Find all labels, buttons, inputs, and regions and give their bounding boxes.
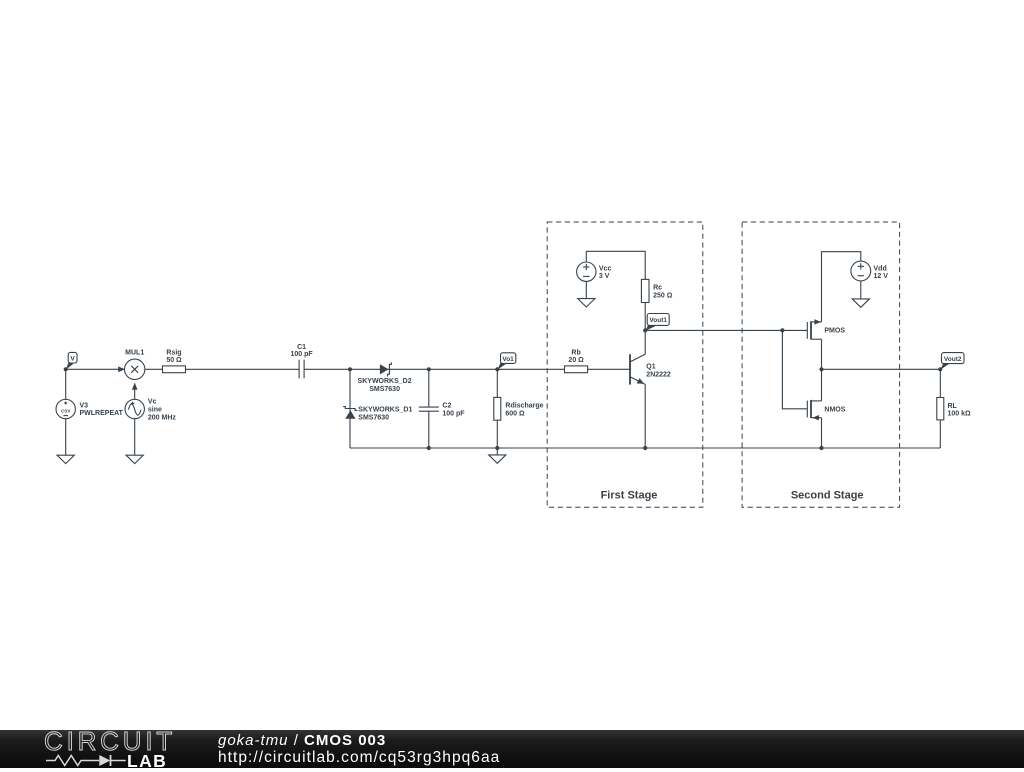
svg-text:3 V: 3 V <box>599 273 610 280</box>
junction C2 bottom rail <box>427 446 431 450</box>
svg-text:PWLREPEAT: PWLREPEAT <box>80 410 124 417</box>
label First Stage <box>601 489 658 501</box>
wire C1 to node A <box>304 368 350 370</box>
ground below Vc <box>126 455 143 463</box>
bottom ground rail <box>350 447 940 449</box>
ground stub below rail <box>496 448 498 455</box>
flag Vout1 <box>645 314 669 331</box>
node B junction <box>427 367 431 371</box>
svg-text:PMOS: PMOS <box>824 327 845 334</box>
wire node G down to NMOS gate <box>782 330 807 408</box>
svg-text:250 Ω: 250 Ω <box>653 292 673 299</box>
ground below Vdd <box>852 299 869 307</box>
CircuitLab logo wordmark CIRCUIT <box>44 726 194 751</box>
svg-text:Rsig: Rsig <box>166 350 181 357</box>
wire Rc to node Vout1 <box>644 303 646 331</box>
capacitor C2 100 pF <box>419 402 465 417</box>
transistor Q1 2N2222 (NPN) <box>630 354 671 384</box>
footer url line <box>218 749 500 767</box>
svg-text:C1: C1 <box>297 344 306 351</box>
svg-text:100 kΩ: 100 kΩ <box>948 411 972 418</box>
svg-text:V3: V3 <box>80 403 89 410</box>
transistor PMOS <box>807 319 845 339</box>
wire node G to PMOS gate <box>782 329 807 331</box>
wire MUL1 output to Rsig <box>145 368 163 370</box>
svg-text:2N2222: 2N2222 <box>646 371 671 378</box>
wire C2 down to bottom rail <box>428 411 430 448</box>
svg-text:First Stage: First Stage <box>601 489 658 501</box>
svg-text:SMS7630: SMS7630 <box>358 415 389 422</box>
node out2 junction <box>819 367 823 371</box>
svg-text:50 Ω: 50 Ω <box>166 357 182 364</box>
svg-text:Rdischarge: Rdischarge <box>505 403 543 410</box>
wire node V down to V3 <box>65 369 67 399</box>
first stage dashed box <box>547 222 703 507</box>
svg-text:C2: C2 <box>442 402 451 409</box>
wire node Vo1 down to Rdischarge <box>496 369 498 397</box>
resistor Rsig 50 ohm <box>163 350 186 373</box>
wire node Vout1 to second stage gate node <box>645 329 782 331</box>
ground below V3 <box>57 455 74 463</box>
resistor RL 100 kohm <box>937 398 971 420</box>
ground symbol at bottom rail <box>489 455 506 463</box>
resistor Rdischarge 600 ohm <box>494 397 544 420</box>
svg-text:600 Ω: 600 Ω <box>505 410 525 417</box>
wire NMOS source to bottom rail <box>821 418 823 448</box>
svg-text:SKYWORKS_D2: SKYWORKS_D2 <box>358 378 412 385</box>
svg-text:20 Ω: 20 Ω <box>568 357 584 364</box>
second stage dashed box <box>742 222 900 507</box>
wire Vc to ground <box>134 419 136 456</box>
wire node Vout1 down to Q1 collector <box>644 330 646 354</box>
junction Rdischarge bottom rail <box>495 446 499 450</box>
wire NMOS drain to output node <box>821 369 823 401</box>
node Vo1 junction <box>495 367 499 371</box>
svg-text:RL: RL <box>948 403 958 410</box>
flag Vo1 <box>497 353 516 370</box>
wire V3 to ground <box>65 419 67 456</box>
junction Q1 emitter bottom rail <box>643 446 647 450</box>
svg-text:Vo1: Vo1 <box>502 356 514 363</box>
flag V <box>66 352 77 369</box>
svg-text:V: V <box>70 356 75 363</box>
svg-text:Rc: Rc <box>653 285 662 292</box>
svg-text:CSV: CSV <box>61 408 71 413</box>
svg-text:Q1: Q1 <box>646 364 655 371</box>
resistor Rc 250 ohm <box>641 279 672 302</box>
svg-text:Vc: Vc <box>148 398 157 405</box>
footer title line <box>218 732 386 749</box>
node Vout2 junction <box>938 367 942 371</box>
wire Vc up to MUL1 input with arrowhead <box>132 383 138 400</box>
svg-text:Second Stage: Second Stage <box>791 489 864 501</box>
svg-text:Rb: Rb <box>571 349 580 356</box>
wire Rsig to C1 <box>186 368 300 370</box>
wire PMOS drain to output node <box>821 339 823 369</box>
capacitor C1 100 pF <box>291 344 314 379</box>
svg-text:Vdd: Vdd <box>874 266 887 273</box>
node G junction (gate node) <box>780 328 784 332</box>
multiplier MUL1 <box>125 350 145 380</box>
wire Q1 emitter to bottom rail <box>644 384 646 448</box>
wire node B down to C2 <box>428 369 430 407</box>
CircuitLab logo LAB <box>127 751 167 772</box>
wire node B to node Vo1 to Rb <box>429 368 565 370</box>
junction NMOS source bottom rail <box>819 446 823 450</box>
wire node Vout2 down to RL <box>939 369 941 397</box>
wire node A down to D1 <box>349 369 351 448</box>
wire Vdd to ground <box>860 281 862 299</box>
svg-text:100 pF: 100 pF <box>291 351 314 358</box>
wire Vdd top to PMOS source <box>822 252 861 322</box>
wire node A through D2 to node B <box>350 368 429 370</box>
wire output node to node Vout2 <box>822 368 941 370</box>
svg-text:100 pF: 100 pF <box>442 410 465 417</box>
wire Rdischarge down to bottom rail <box>496 420 498 448</box>
svg-text:200 MHz: 200 MHz <box>148 414 177 421</box>
svg-text:NMOS: NMOS <box>824 406 845 413</box>
voltage source Vc (sine 200 MHz) <box>125 398 176 421</box>
svg-text:Vout1: Vout1 <box>649 317 667 324</box>
node Vout1 junction <box>643 328 647 332</box>
node A junction <box>348 367 352 371</box>
svg-text:Vcc: Vcc <box>599 265 612 272</box>
diode SKYWORKS_D1 SMS7630 (schottky, pointing up) <box>343 407 412 422</box>
flag Vout2 <box>940 353 964 370</box>
CircuitLab logo resistor-diode glyph <box>46 753 128 768</box>
voltage source Vcc 3 V <box>577 262 612 281</box>
ground below Vcc <box>578 299 595 307</box>
wire Rb to Q1 base <box>588 368 630 370</box>
svg-text:12 V: 12 V <box>874 273 889 280</box>
wire node V to MUL1 input with arrowhead <box>66 367 126 373</box>
svg-text:SKYWORKS_D1: SKYWORKS_D1 <box>358 407 412 414</box>
svg-text:MUL1: MUL1 <box>125 350 144 357</box>
svg-text:SMS7630: SMS7630 <box>369 386 400 393</box>
wire RL down to bottom rail <box>939 420 941 448</box>
voltage source V3 (CSV / PWLREPEAT) <box>56 399 124 418</box>
voltage source Vdd 12 V <box>851 261 888 281</box>
svg-text:sine: sine <box>148 406 162 413</box>
svg-text:Vout2: Vout2 <box>944 356 962 363</box>
diode SKYWORKS_D2 SMS7630 (schottky) <box>358 362 412 393</box>
wire Vcc top to Rc top <box>586 251 645 279</box>
node V (source output node) <box>64 367 68 371</box>
label Second Stage <box>791 489 864 501</box>
wire Vcc to ground <box>585 281 587 298</box>
transistor NMOS <box>807 400 845 421</box>
resistor Rb 20 ohm <box>565 349 588 372</box>
